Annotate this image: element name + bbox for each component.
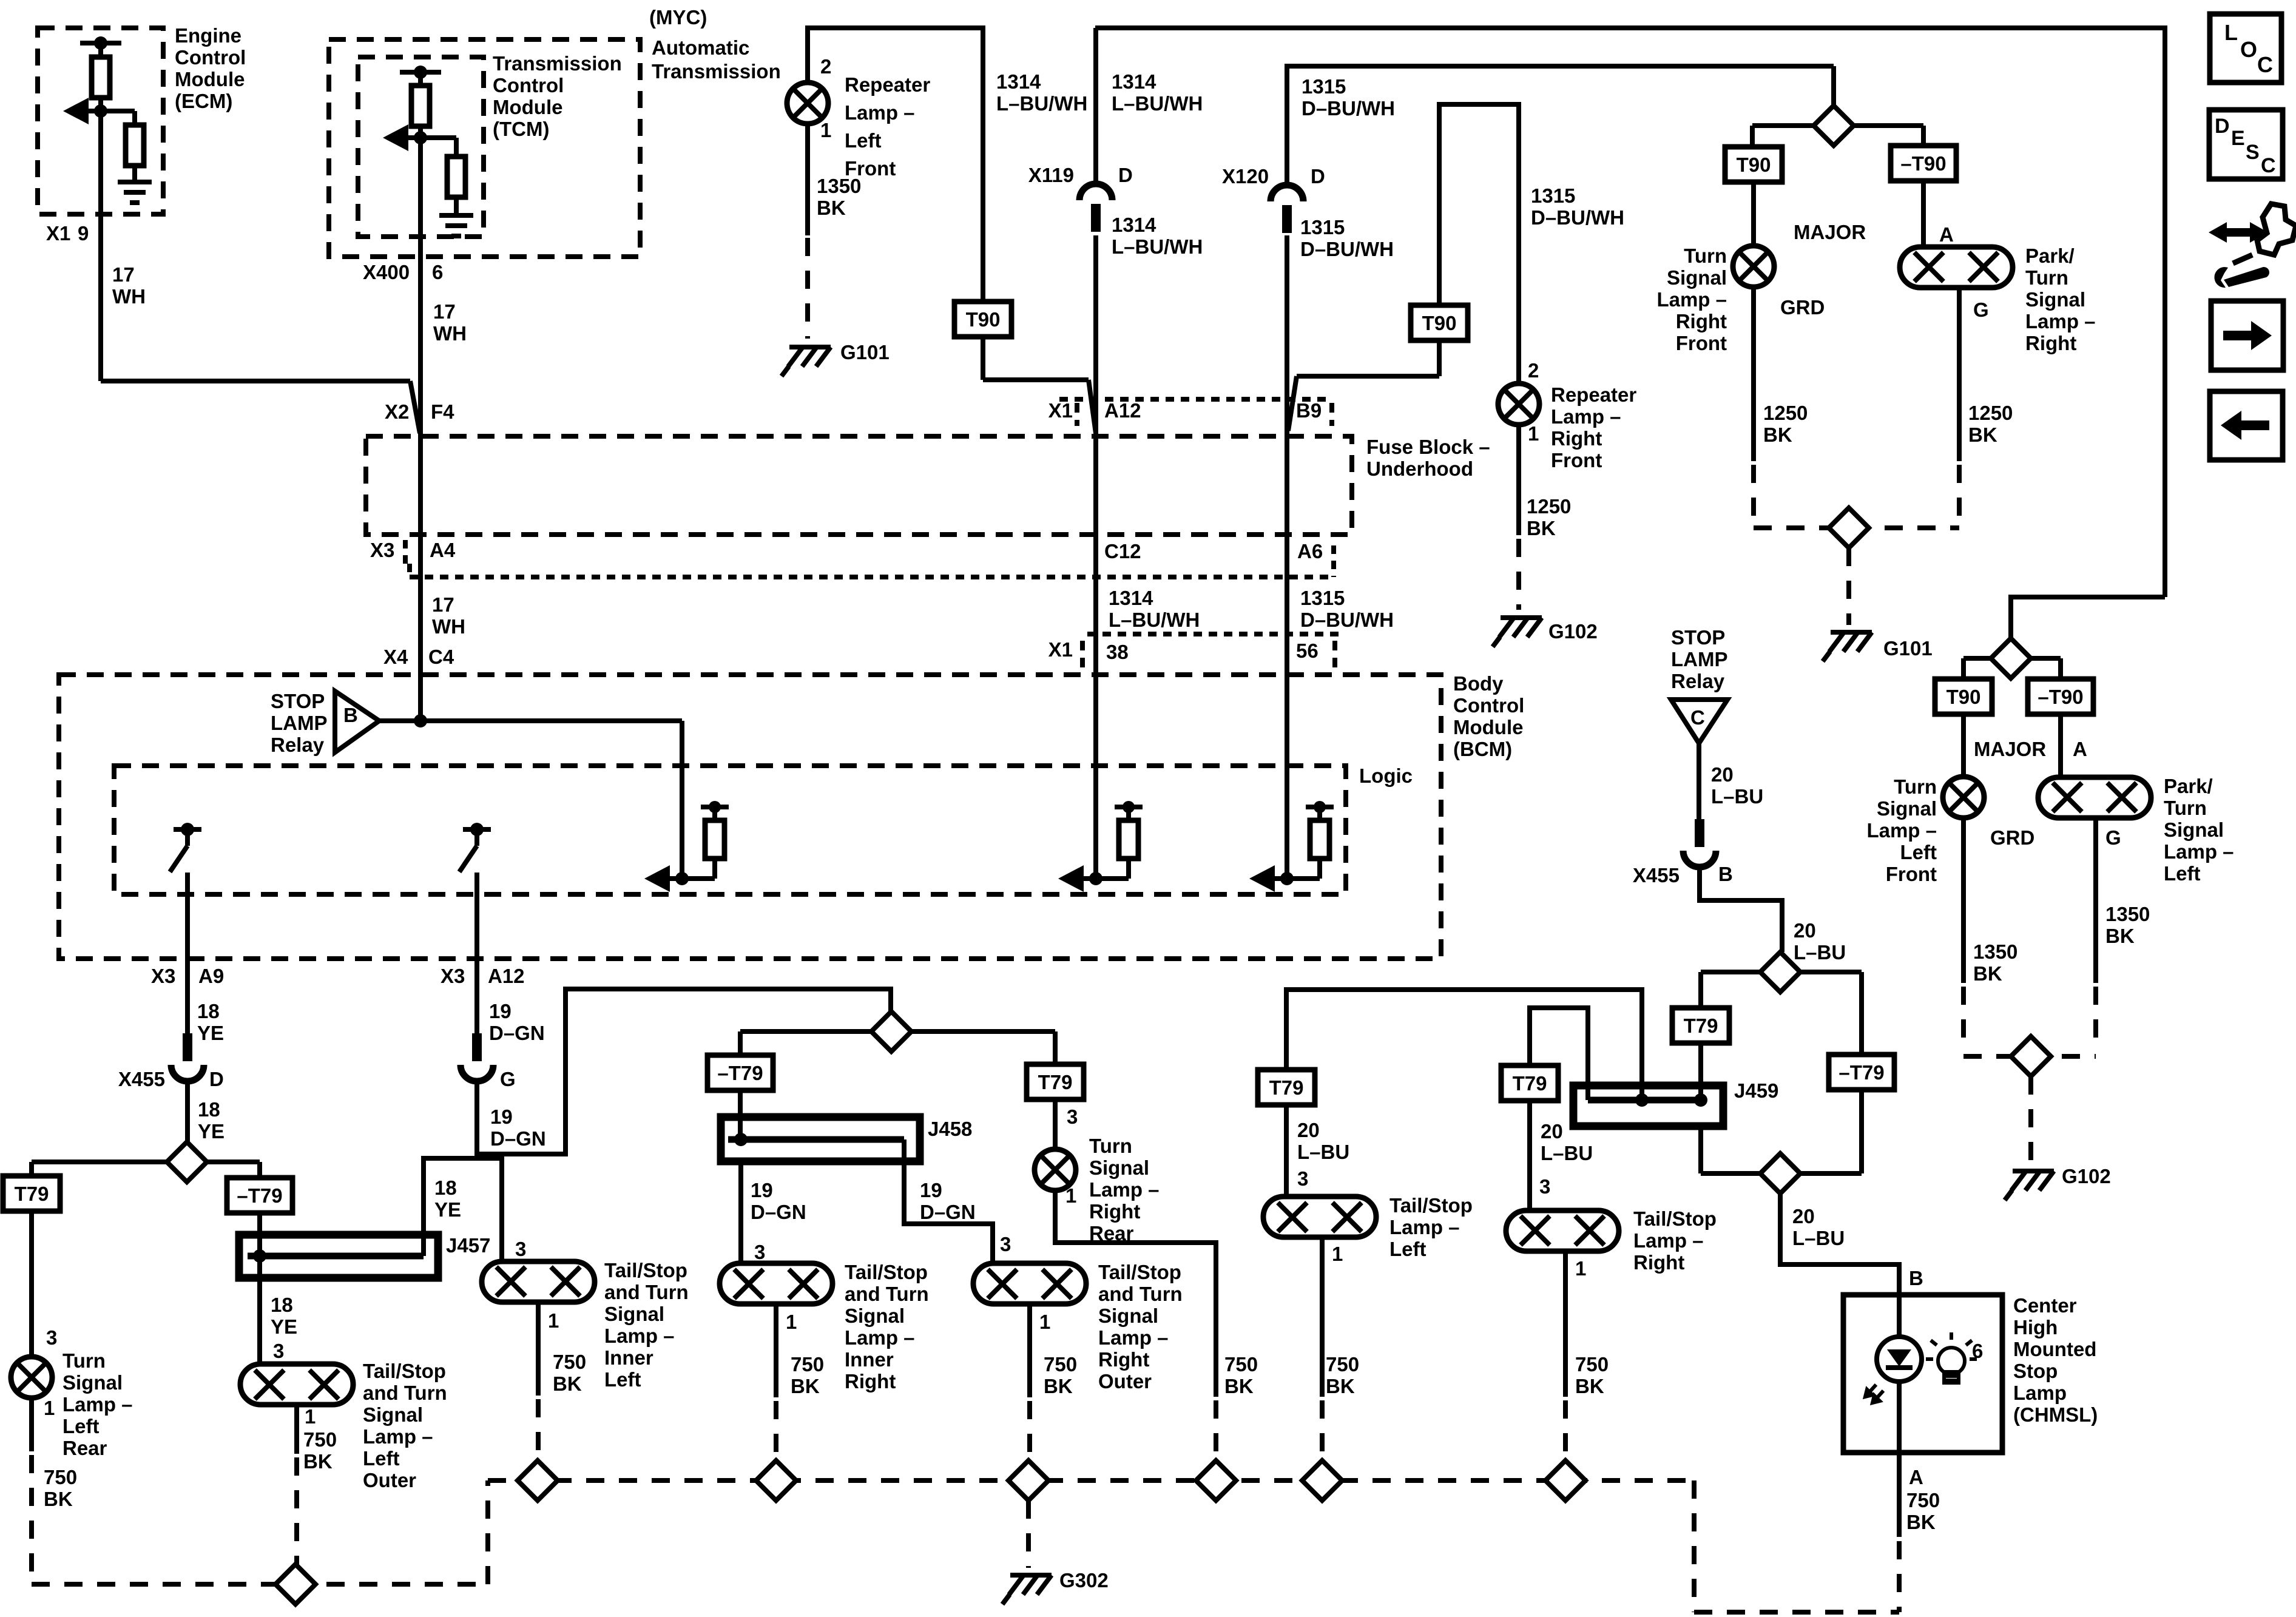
connector tick X3 — [403, 540, 408, 568]
wire ECM to X2-F4 — [101, 379, 410, 383]
svg-text:WH: WH — [112, 285, 146, 308]
svg-text:D–GN: D–GN — [751, 1201, 806, 1223]
svg-text:Right: Right — [1633, 1251, 1684, 1274]
lamp Tail/Stop and Turn Signal Lamp - Left Outer — [240, 1364, 353, 1405]
svg-text:A6: A6 — [1297, 540, 1323, 562]
svg-text:Right: Right — [1089, 1200, 1140, 1223]
logic output motif 2 (1314) — [1064, 876, 1129, 881]
svg-text:1315: 1315 — [1531, 184, 1575, 207]
svg-text:Tail/Stop: Tail/Stop — [845, 1261, 928, 1283]
junction block J457 — [239, 1235, 438, 1278]
svg-text:Front: Front — [1676, 332, 1727, 354]
wire X455 D to diamond — [185, 1081, 190, 1142]
svg-text:20: 20 — [1297, 1119, 1320, 1141]
wire left outer lamp to bus — [294, 1405, 299, 1454]
svg-text:Automatic: Automatic — [652, 36, 749, 59]
bulb icon CHMSL — [1926, 1332, 1977, 1383]
svg-text:Stop: Stop — [2013, 1360, 2058, 1382]
svg-text:Inner: Inner — [604, 1346, 653, 1369]
svg-text:T79: T79 — [1269, 1076, 1304, 1099]
splice -T79 (J459) — [1829, 1055, 1894, 1090]
svg-text:E: E — [2231, 127, 2245, 150]
svg-text:Left: Left — [363, 1447, 400, 1470]
wire 1315 top corner — [1287, 66, 1834, 184]
svg-text:C: C — [1690, 706, 1705, 729]
lamp Tail/Stop Lamp - Left — [1263, 1197, 1376, 1237]
svg-text:D: D — [1118, 164, 1133, 186]
svg-text:Rear: Rear — [62, 1437, 107, 1459]
wire -T79 into J457 — [257, 1213, 262, 1256]
svg-text:Underhood: Underhood — [1366, 457, 1473, 480]
svg-text:BK: BK — [1044, 1375, 1073, 1397]
icon wrench and arrows — [2209, 204, 2296, 288]
svg-text:A4: A4 — [430, 539, 456, 561]
svg-text:Left: Left — [604, 1368, 641, 1391]
svg-text:G101: G101 — [840, 341, 890, 363]
svg-text:T79: T79 — [15, 1183, 49, 1205]
wire diamond to -T90 — [1854, 123, 1923, 128]
svg-text:C: C — [2261, 154, 2276, 177]
svg-text:BK: BK — [44, 1488, 73, 1510]
svg-text:WH: WH — [433, 322, 467, 345]
svg-text:17: 17 — [112, 263, 135, 286]
connector row lower (short dash) — [410, 575, 1334, 579]
svg-text:T79: T79 — [1513, 1072, 1547, 1095]
switch logic right (A12) — [463, 827, 491, 832]
svg-text:Lamp –: Lamp – — [2164, 840, 2234, 863]
svg-text:Right: Right — [1551, 427, 1602, 450]
wire T79 to tail/stop right lamp — [1527, 1101, 1532, 1210]
svg-text:X1: X1 — [1048, 638, 1073, 661]
wire switch A9 down — [185, 873, 190, 1038]
svg-text:18: 18 — [271, 1294, 293, 1316]
svg-text:Left: Left — [845, 129, 882, 152]
svg-text:Lamp –: Lamp – — [2025, 310, 2096, 333]
connector X455 B — [1695, 819, 1704, 847]
svg-text:A: A — [1909, 1466, 1923, 1488]
svg-text:17: 17 — [432, 593, 454, 616]
svg-text:750: 750 — [303, 1428, 337, 1451]
svg-text:Turn: Turn — [62, 1349, 106, 1372]
svg-text:MAJOR: MAJOR — [1794, 221, 1866, 243]
wire right bus down to left front group — [2011, 597, 2165, 638]
svg-text:L–BU: L–BU — [1297, 1141, 1349, 1163]
svg-text:X2: X2 — [385, 400, 409, 423]
svg-text:Tail/Stop: Tail/Stop — [1389, 1194, 1473, 1217]
svg-text:1314: 1314 — [1112, 214, 1156, 236]
svg-text:(ECM): (ECM) — [175, 90, 232, 112]
svg-text:Lamp –: Lamp – — [604, 1325, 675, 1347]
node ECM output junction — [94, 104, 107, 118]
icon left arrow box — [2210, 391, 2283, 460]
svg-text:Outer: Outer — [363, 1469, 416, 1491]
svg-text:BK: BK — [1763, 424, 1792, 446]
svg-text:Lamp –: Lamp – — [1098, 1326, 1169, 1349]
svg-text:1315: 1315 — [1300, 587, 1345, 609]
svg-text:Lamp –: Lamp – — [1551, 405, 1621, 428]
TCM internal supply bar — [400, 70, 441, 75]
svg-text:X120: X120 — [1222, 165, 1269, 187]
svg-text:Body: Body — [1453, 672, 1504, 695]
svg-text:D–GN: D–GN — [920, 1201, 976, 1223]
svg-text:G: G — [2105, 826, 2121, 849]
splice diamond (right rear) — [1196, 1460, 1236, 1501]
wire switch A12 down — [474, 873, 479, 1038]
svg-text:F4: F4 — [431, 400, 454, 423]
svg-text:G101: G101 — [1883, 637, 1933, 660]
wire T90 to X1-A12 — [981, 337, 985, 380]
wire TCM X400-6 down to relay junction — [418, 138, 423, 721]
svg-text:Tail/Stop: Tail/Stop — [604, 1259, 687, 1281]
svg-text:J457: J457 — [446, 1234, 490, 1257]
svg-text:Park/: Park/ — [2164, 775, 2213, 797]
svg-text:D–GN: D–GN — [490, 1127, 546, 1150]
svg-text:G302: G302 — [1059, 1569, 1109, 1592]
node TCM output junction — [414, 131, 427, 144]
svg-text:Lamp –: Lamp – — [1656, 288, 1727, 311]
wire X455 B to J459 diamond — [1700, 866, 1782, 952]
lamp Park/Turn Signal Lamp - Right — [1900, 247, 2013, 288]
ground TCM internal — [439, 215, 473, 236]
wire J459 to tail/stop right T79 — [1530, 1008, 1588, 1100]
wire J459 T79 to bottom diamond — [1698, 1126, 1703, 1173]
svg-text:BK: BK — [1527, 517, 1556, 539]
wire main top bus — [1095, 28, 2165, 597]
svg-text:Lamp –: Lamp – — [845, 1326, 915, 1349]
svg-text:20: 20 — [1541, 1120, 1563, 1143]
svg-text:and Turn: and Turn — [1098, 1283, 1183, 1305]
wire GRD to ground (left front) — [1961, 818, 1966, 983]
svg-text:Right: Right — [1676, 310, 1727, 333]
svg-text:Front: Front — [1551, 449, 1602, 471]
splice T90 (right front lamp) — [1725, 147, 1782, 182]
module box TCM (dashed) — [358, 57, 484, 237]
svg-text:19: 19 — [490, 1106, 513, 1128]
lamp Repeater Lamp - Left Front — [787, 83, 828, 124]
svg-text:Signal: Signal — [604, 1303, 664, 1325]
svg-text:Relay: Relay — [1671, 670, 1725, 692]
svg-text:Signal: Signal — [2164, 819, 2224, 841]
svg-text:Right: Right — [2025, 332, 2076, 354]
svg-text:X1: X1 — [1048, 399, 1073, 422]
wire diamond to T79 (left rear) — [32, 1160, 167, 1164]
svg-text:Lamp: Lamp — [2013, 1382, 2067, 1404]
svg-text:G102: G102 — [2062, 1165, 2111, 1187]
wire T79 into J459 — [1698, 1043, 1703, 1100]
svg-text:Transmission: Transmission — [493, 52, 622, 75]
svg-text:Module: Module — [1453, 716, 1523, 738]
svg-text:YE: YE — [434, 1198, 461, 1221]
svg-text:Left: Left — [1900, 841, 1937, 863]
splice diamond (G302) — [1008, 1460, 1048, 1501]
svg-text:17: 17 — [433, 300, 456, 323]
svg-text:Signal: Signal — [1098, 1305, 1158, 1327]
svg-text:BK: BK — [1224, 1375, 1254, 1397]
svg-text:Left: Left — [62, 1415, 100, 1437]
svg-text:D: D — [209, 1068, 224, 1090]
icon right arrow box — [2211, 301, 2283, 370]
svg-text:Turn: Turn — [2164, 797, 2207, 819]
svg-text:1: 1 — [820, 119, 831, 141]
svg-text:X3: X3 — [151, 965, 175, 987]
wire G302 stem — [1026, 1501, 1031, 1568]
wire ground bus right segment — [1692, 1480, 1697, 1612]
svg-text:Park/: Park/ — [2025, 245, 2075, 267]
splice diamond ground (right front) — [1829, 508, 1869, 548]
svg-text:C12: C12 — [1104, 540, 1141, 562]
svg-text:1314: 1314 — [996, 70, 1041, 93]
splice diamond J459 bottom — [1760, 1153, 1800, 1193]
svg-text:L: L — [2224, 20, 2238, 45]
svg-text:X455: X455 — [1633, 864, 1680, 886]
svg-text:Lamp –: Lamp – — [1389, 1216, 1460, 1238]
connector row X1 A12 B9 (short dash) — [1059, 397, 1332, 402]
svg-text:X1: X1 — [46, 222, 70, 245]
splice -T90 (park/turn right) — [1891, 146, 1956, 181]
resistor TCM pull-down — [420, 135, 456, 140]
svg-text:Lamp –: Lamp – — [845, 101, 915, 124]
svg-text:3: 3 — [1539, 1175, 1550, 1198]
svg-text:1350: 1350 — [2105, 903, 2150, 925]
svg-text:YE: YE — [198, 1120, 225, 1143]
wire inner right lamp to bus — [774, 1304, 778, 1397]
svg-text:1315: 1315 — [1300, 216, 1345, 238]
wire T90 to lamp — [1751, 182, 1756, 246]
splice diamond (left outer) — [275, 1564, 316, 1604]
lamp Tail/Stop Lamp - Right — [1506, 1210, 1619, 1251]
logic box (dashed) — [114, 766, 1346, 894]
wire diamond to T90 (left front) — [1963, 656, 1991, 661]
svg-text:1350: 1350 — [1973, 940, 2017, 963]
wire -T90 to park lamp (left) — [2058, 714, 2063, 777]
svg-text:T90: T90 — [1422, 312, 1457, 334]
svg-text:750: 750 — [1906, 1489, 1940, 1511]
svg-text:750: 750 — [1224, 1353, 1258, 1376]
svg-text:A: A — [1939, 223, 1954, 246]
svg-text:1: 1 — [1575, 1257, 1586, 1280]
svg-text:(BCM): (BCM) — [1453, 738, 1512, 760]
wire ground bus (right front) — [1754, 525, 1959, 530]
module box ECM (dashed) — [38, 28, 163, 214]
resistor TCM pull-up — [418, 72, 423, 86]
svg-text:Left: Left — [2164, 862, 2201, 885]
svg-text:1250: 1250 — [1527, 495, 1571, 518]
svg-text:19: 19 — [920, 1179, 942, 1201]
wire J458 to right outer lamp — [904, 1139, 993, 1263]
svg-text:Turn: Turn — [1894, 775, 1937, 798]
svg-text:LAMP: LAMP — [1671, 648, 1728, 670]
wire J458 down to inner right lamp — [738, 1161, 743, 1263]
svg-text:and Turn: and Turn — [363, 1382, 447, 1404]
resistor ECM pull-down — [101, 109, 135, 113]
splice diamond (tail/stop left) — [1302, 1460, 1342, 1501]
svg-text:G102: G102 — [1548, 620, 1598, 643]
wire diamond to T90 — [1752, 123, 1814, 128]
svg-text:Front: Front — [1886, 863, 1937, 885]
svg-text:X3: X3 — [370, 539, 394, 561]
svg-text:Control: Control — [493, 74, 564, 96]
svg-text:6: 6 — [1972, 1340, 1983, 1362]
svg-text:3: 3 — [1067, 1106, 1078, 1128]
svg-text:18: 18 — [198, 1098, 220, 1121]
wire repeater right to ground — [1516, 425, 1521, 535]
svg-text:D: D — [1311, 165, 1325, 187]
LED CHMSL — [1877, 1337, 1922, 1382]
svg-text:Signal: Signal — [1089, 1156, 1149, 1179]
wire 17 WH through fuse block — [418, 433, 423, 721]
svg-text:Repeater: Repeater — [1551, 383, 1636, 406]
svg-text:BK: BK — [1326, 1375, 1355, 1397]
wire ground bus riser — [485, 1480, 490, 1584]
splice T90 (left) — [954, 302, 1011, 337]
svg-text:Fuse Block –: Fuse Block – — [1366, 436, 1490, 458]
svg-text:750: 750 — [553, 1351, 586, 1373]
lamp Tail/Stop and Turn Signal Lamp - Inner Left — [482, 1261, 595, 1302]
wire BCM to J459 (20 L-BU feed) — [1286, 990, 1642, 1100]
connector X455 G — [472, 1033, 482, 1061]
svg-text:6: 6 — [432, 261, 443, 283]
svg-text:Left: Left — [1389, 1238, 1427, 1260]
svg-text:and Turn: and Turn — [604, 1281, 689, 1303]
svg-text:750: 750 — [1326, 1353, 1359, 1376]
svg-text:Tail/Stop: Tail/Stop — [363, 1360, 446, 1382]
svg-text:BK: BK — [1968, 424, 1997, 446]
wire -T79 to bottom diamond (J459) — [1859, 1090, 1864, 1173]
module box CHMSL — [1843, 1295, 2002, 1453]
splice diamond (19 D-GN) — [871, 1011, 911, 1052]
svg-text:D: D — [2215, 115, 2230, 138]
svg-text:1314: 1314 — [1112, 70, 1156, 93]
wire diamond to T79 (right rear) — [911, 1029, 1055, 1034]
svg-text:750: 750 — [791, 1353, 824, 1376]
wire tail/stop left to bus — [1320, 1237, 1325, 1397]
svg-text:B: B — [343, 704, 358, 726]
logic output motif 3 (1315) — [1255, 876, 1320, 881]
svg-text:B: B — [1909, 1267, 1923, 1289]
svg-text:Outer: Outer — [1098, 1370, 1152, 1393]
svg-text:Turn: Turn — [1089, 1135, 1132, 1157]
svg-text:A12: A12 — [1104, 399, 1141, 422]
svg-text:–T79: –T79 — [717, 1062, 763, 1084]
svg-text:750: 750 — [44, 1466, 77, 1488]
svg-text:X3: X3 — [441, 965, 465, 987]
TCM output arrow — [388, 135, 420, 140]
svg-text:J458: J458 — [928, 1118, 972, 1140]
svg-text:BK: BK — [817, 197, 846, 219]
wire J457 down to left outer lamp — [257, 1256, 262, 1364]
svg-text:1: 1 — [1332, 1243, 1343, 1265]
resistor ECM pull-up — [98, 43, 103, 57]
svg-text:20: 20 — [1711, 763, 1734, 786]
svg-text:Signal: Signal — [363, 1403, 423, 1426]
svg-text:3: 3 — [1297, 1167, 1308, 1190]
svg-text:Repeater: Repeater — [845, 73, 930, 96]
svg-text:Center: Center — [2013, 1294, 2077, 1317]
ground G302 — [1002, 1575, 1052, 1604]
svg-text:1350: 1350 — [817, 175, 861, 197]
svg-text:D–GN: D–GN — [489, 1022, 545, 1044]
svg-text:20: 20 — [1794, 919, 1816, 942]
wire G to ground (park/turn left) — [2093, 818, 2098, 983]
connector X455 D — [183, 1033, 192, 1061]
svg-text:J459: J459 — [1734, 1079, 1778, 1102]
svg-text:Mounted: Mounted — [2013, 1338, 2096, 1360]
svg-text:20: 20 — [1792, 1205, 1815, 1227]
splice T79 (right rear) — [1027, 1064, 1084, 1099]
wire repeater left to ground — [805, 124, 810, 235]
svg-text:YE: YE — [197, 1022, 224, 1044]
wire diamond to -T79 (left outer) — [207, 1160, 260, 1164]
svg-text:Lamp –: Lamp – — [1633, 1229, 1704, 1252]
ground G102 (repeater right) — [1493, 618, 1542, 647]
wire relay C down — [1697, 743, 1701, 820]
svg-text:BK: BK — [791, 1375, 820, 1397]
wire ground bus left segment — [32, 1582, 488, 1587]
svg-text:O: O — [2240, 37, 2257, 62]
wire diamond to G102 — [2028, 1076, 2033, 1164]
svg-text:Control: Control — [1453, 694, 1524, 717]
svg-text:G: G — [1973, 299, 1989, 321]
svg-text:High: High — [2013, 1316, 2058, 1338]
svg-text:Lamp –: Lamp – — [62, 1393, 133, 1416]
icon LOC box — [2210, 14, 2281, 83]
svg-text:(TCM): (TCM) — [493, 118, 549, 140]
svg-text:19: 19 — [489, 1000, 512, 1022]
svg-text:L–BU: L–BU — [1541, 1142, 1593, 1164]
svg-text:A: A — [2073, 738, 2087, 760]
lamp Turn Signal Lamp - Left Front — [1943, 777, 1984, 818]
svg-text:1250: 1250 — [1968, 402, 2013, 424]
svg-text:L–BU/WH: L–BU/WH — [1112, 92, 1203, 115]
svg-text:Signal: Signal — [845, 1305, 905, 1327]
svg-text:Module: Module — [175, 68, 245, 90]
svg-text:BK: BK — [553, 1372, 582, 1395]
svg-text:C4: C4 — [428, 646, 454, 668]
svg-text:1: 1 — [1065, 1184, 1076, 1207]
wire right rear lamp to bus — [1055, 1190, 1216, 1397]
wire CHMSL A to bus — [1897, 1453, 1902, 1537]
svg-text:A9: A9 — [198, 965, 224, 987]
svg-text:D–BU/WH: D–BU/WH — [1531, 206, 1624, 229]
splice T90 (right) — [1411, 305, 1468, 340]
fuse block box (dashed) — [366, 436, 1352, 535]
splice -T79 (inner right) — [707, 1055, 773, 1090]
wire T79 to lamp (left rear) — [29, 1211, 34, 1357]
splice diamond X455 D — [167, 1142, 207, 1182]
svg-text:Signal: Signal — [62, 1371, 123, 1394]
svg-text:Relay: Relay — [271, 734, 325, 756]
wire diamond to -T79 (J459) — [1800, 970, 1862, 974]
splice T79 (tail/stop left) — [1258, 1070, 1315, 1105]
module box Automatic Transmission MYC (dashed) — [329, 39, 640, 257]
svg-text:X119: X119 — [1028, 164, 1074, 186]
wire GRD to ground (right front) — [1751, 287, 1756, 461]
splice node diamond (right front) — [1831, 66, 1836, 106]
splice T90 (left front lamp) — [1935, 679, 1992, 714]
lamp Park/Turn Signal Lamp - Left — [2038, 777, 2151, 818]
wire diamond to -T90 (park/turn left) — [2031, 656, 2061, 661]
lamp Turn Signal Lamp - Right Rear — [1035, 1149, 1076, 1190]
svg-text:3: 3 — [46, 1326, 57, 1349]
svg-text:–T90: –T90 — [2038, 686, 2083, 708]
junction block J458 — [721, 1117, 920, 1161]
ECM output arrow — [68, 109, 101, 113]
wire J459 bottom to CHMSL — [1780, 1193, 1899, 1295]
svg-text:X400: X400 — [363, 261, 410, 283]
svg-text:(CHMSL): (CHMSL) — [2013, 1403, 2098, 1426]
svg-text:D–BU/WH: D–BU/WH — [1300, 238, 1394, 260]
svg-text:G: G — [500, 1068, 516, 1090]
